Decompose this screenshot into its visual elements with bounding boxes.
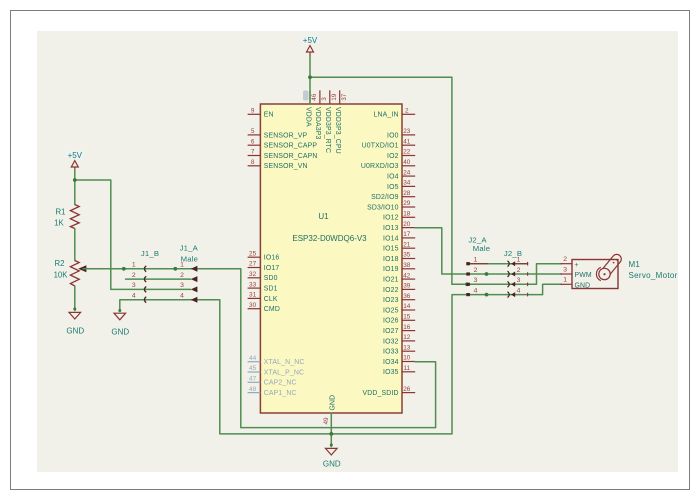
junction at J2_A pin 4 tip xyxy=(485,293,489,297)
svg-text:1: 1 xyxy=(180,262,184,269)
svg-text:IO33: IO33 xyxy=(383,349,399,356)
svg-text:1: 1 xyxy=(474,257,478,264)
wire IO13 to J2 row 2 (PWM) xyxy=(415,228,562,274)
wire R2 to ground xyxy=(74,286,76,311)
svg-text:11: 11 xyxy=(403,365,410,372)
svg-text:30: 30 xyxy=(249,302,257,309)
wire R2 wiper to J1 row 1 to IO34 (bottom bus) xyxy=(83,269,436,428)
connector J2_B pin 3 xyxy=(508,277,528,287)
svg-text:33: 33 xyxy=(249,281,257,288)
svg-text:Servo_Motor: Servo_Motor xyxy=(629,271,678,280)
junction at top +5V xyxy=(308,75,312,79)
svg-text:3: 3 xyxy=(180,282,184,289)
IC U1 ESP32-D0WDQ6-V3 microcontroller xyxy=(260,104,402,413)
wire U1 GND pin to ground xyxy=(330,413,332,447)
svg-text:29: 29 xyxy=(403,200,411,207)
svg-text:ESP32-D0WDQ6-V3: ESP32-D0WDQ6-V3 xyxy=(292,234,367,243)
U1 top power pins VDDA VDDA3P3 VDD3P3_RTC VDD3P3_CPU xyxy=(303,90,348,153)
connector J2_B pin 2 xyxy=(508,267,528,277)
svg-text:CLK: CLK xyxy=(264,296,278,303)
motor M1 Servo_Motor body and pins xyxy=(561,254,622,289)
svg-text:41: 41 xyxy=(403,138,411,145)
svg-text:45: 45 xyxy=(249,365,257,372)
svg-text:18: 18 xyxy=(403,211,411,218)
svg-text:SD1: SD1 xyxy=(264,286,278,293)
svg-text:24: 24 xyxy=(403,169,411,176)
svg-text:4: 4 xyxy=(132,293,136,300)
svg-text:IO12: IO12 xyxy=(383,215,399,222)
svg-text:37: 37 xyxy=(341,93,348,101)
svg-text:16: 16 xyxy=(403,324,411,331)
connector J2_A pin 1 xyxy=(466,257,488,266)
ground symbol (bottom center) xyxy=(323,448,341,468)
svg-text:10K: 10K xyxy=(54,271,69,280)
svg-text:SENSOR_CAPN: SENSOR_CAPN xyxy=(264,153,318,160)
svg-text:CAP1_NC: CAP1_NC xyxy=(264,390,297,397)
svg-text:VDD3P3_CPU: VDD3P3_CPU xyxy=(334,107,341,154)
svg-text:GND: GND xyxy=(111,328,129,337)
svg-text:IO19: IO19 xyxy=(383,266,399,273)
svg-text:2: 2 xyxy=(517,267,521,274)
svg-text:49: 49 xyxy=(323,417,330,425)
svg-text:22: 22 xyxy=(403,149,411,156)
connector J2_B label xyxy=(504,249,522,258)
ground symbol (under J1_B) xyxy=(111,313,129,336)
svg-text:2: 2 xyxy=(405,108,409,115)
svg-text:CAP2_NC: CAP2_NC xyxy=(264,380,297,387)
svg-text:1: 1 xyxy=(132,262,136,269)
svg-text:19: 19 xyxy=(331,93,338,101)
junction at J2_A pin 3 xyxy=(465,282,469,286)
svg-text:IO15: IO15 xyxy=(383,246,399,253)
svg-text:28: 28 xyxy=(403,190,411,197)
svg-text:VDD3P3_RTC: VDD3P3_RTC xyxy=(324,107,331,153)
connector J2_A pin 2 xyxy=(466,267,477,276)
connector J1_A pin 2 xyxy=(180,272,197,282)
svg-text:31: 31 xyxy=(249,292,257,299)
svg-text:7: 7 xyxy=(251,149,255,156)
svg-text:U0RXD/IO3: U0RXD/IO3 xyxy=(361,163,399,170)
svg-text:IO5: IO5 xyxy=(387,184,399,191)
svg-text:IO17: IO17 xyxy=(264,265,280,272)
svg-text:39: 39 xyxy=(403,283,411,290)
svg-text:SENSOR_VN: SENSOR_VN xyxy=(264,163,308,170)
svg-text:IO4: IO4 xyxy=(387,174,399,181)
svg-text:9: 9 xyxy=(251,108,255,115)
svg-text:IO34: IO34 xyxy=(383,359,399,366)
connector J1_B pin 3 xyxy=(132,282,146,292)
svg-text:4: 4 xyxy=(474,287,478,294)
connector J1_B pin 1 xyxy=(132,262,146,272)
wire R1 to R2 xyxy=(74,229,76,261)
svg-text:20: 20 xyxy=(403,221,411,228)
svg-text:32: 32 xyxy=(249,271,257,278)
svg-text:SD3/IO10: SD3/IO10 xyxy=(367,204,398,211)
svg-text:2: 2 xyxy=(132,272,136,279)
svg-text:VDDA3P3: VDDA3P3 xyxy=(314,107,321,139)
connector J1_B label xyxy=(141,249,159,258)
svg-text:J1_B: J1_B xyxy=(141,249,159,258)
svg-text:IO25: IO25 xyxy=(383,307,399,314)
svg-text:42: 42 xyxy=(403,272,411,279)
connector J2_A labels xyxy=(468,236,490,253)
connector J1_A pin 1 xyxy=(180,262,197,272)
svg-text:40: 40 xyxy=(403,159,411,166)
junction at +5V branch xyxy=(73,178,77,182)
svg-text:3: 3 xyxy=(563,266,567,273)
connector J2_B pin 4 xyxy=(508,287,528,297)
connector J1_B pin 2 xyxy=(132,272,146,282)
motor M1 labels xyxy=(629,260,678,280)
svg-text:GND: GND xyxy=(323,460,341,469)
connector J1_A pin 3 xyxy=(180,282,197,292)
svg-text:2: 2 xyxy=(474,267,478,274)
svg-text:8: 8 xyxy=(251,159,255,166)
svg-text:SENSOR_VP: SENSOR_VP xyxy=(264,132,308,139)
svg-text:48: 48 xyxy=(249,386,257,393)
svg-text:XTAL_N_NC: XTAL_N_NC xyxy=(264,359,305,366)
svg-text:12: 12 xyxy=(403,334,411,341)
svg-text:GND: GND xyxy=(575,283,591,290)
svg-text:LNA_IN: LNA_IN xyxy=(374,112,399,119)
svg-text:IO26: IO26 xyxy=(383,318,399,325)
svg-text:J1_A: J1_A xyxy=(180,244,199,253)
svg-text:XTAL_P_NC: XTAL_P_NC xyxy=(264,369,304,376)
resistor R1 xyxy=(54,205,79,229)
U1 left pins with numbers xyxy=(248,108,318,398)
svg-text:4: 4 xyxy=(517,287,521,294)
connector J1_A labels xyxy=(180,244,199,264)
svg-text:IO13: IO13 xyxy=(383,225,399,232)
svg-text:1: 1 xyxy=(517,257,521,264)
junction at J1_A pin 1 xyxy=(173,267,177,271)
svg-text:26: 26 xyxy=(403,386,411,393)
svg-text:IO27: IO27 xyxy=(383,328,399,335)
svg-text:44: 44 xyxy=(249,355,257,362)
svg-text:38: 38 xyxy=(403,262,411,269)
connector J1_A pin 4 xyxy=(180,293,197,303)
svg-text:SD0: SD0 xyxy=(264,275,278,282)
svg-text:1K: 1K xyxy=(54,219,64,228)
svg-text:R2: R2 xyxy=(55,259,65,268)
svg-text:IO0: IO0 xyxy=(387,132,399,139)
svg-text:IO2: IO2 xyxy=(387,153,399,160)
wire +5V stem (left) xyxy=(74,170,76,205)
svg-text:15: 15 xyxy=(403,314,411,321)
svg-text:23: 23 xyxy=(403,128,411,135)
svg-text:1: 1 xyxy=(563,277,567,284)
connector J2_A pin 4 xyxy=(466,287,477,296)
svg-text:U0TXD/IO1: U0TXD/IO1 xyxy=(362,143,399,150)
junction on wiper wire xyxy=(122,267,126,271)
wire J1 row 2 xyxy=(126,278,191,280)
svg-text:CMD: CMD xyxy=(264,306,280,313)
junction at J2_A pin 2 tip xyxy=(485,272,489,276)
svg-text:5: 5 xyxy=(251,128,255,135)
svg-text:IO23: IO23 xyxy=(383,297,399,304)
svg-text:M1: M1 xyxy=(629,260,641,269)
svg-text:13: 13 xyxy=(403,344,411,351)
svg-text:IO21: IO21 xyxy=(383,277,399,284)
connector J1_B pin 4 xyxy=(132,293,146,303)
svg-text:46: 46 xyxy=(311,93,318,101)
svg-text:2: 2 xyxy=(180,272,184,279)
svg-text:10: 10 xyxy=(403,355,411,362)
svg-text:3: 3 xyxy=(517,277,521,284)
wire J1 row 4 to ground and bottom GND bus xyxy=(120,284,562,434)
svg-text:EN: EN xyxy=(264,112,274,119)
svg-text:47: 47 xyxy=(249,376,257,383)
svg-text:34: 34 xyxy=(403,180,411,187)
U1 bottom pin 49 GND xyxy=(323,395,337,425)
svg-text:SENSOR_CAPP: SENSOR_CAPP xyxy=(264,143,318,150)
connector J2_B pin 1 xyxy=(508,257,528,267)
junction GND bus at U1 GND xyxy=(329,432,333,436)
svg-text:IO35: IO35 xyxy=(383,369,399,376)
svg-text:2: 2 xyxy=(563,256,567,263)
svg-text:IO16: IO16 xyxy=(264,255,280,262)
potentiometer R2 xyxy=(54,259,87,286)
svg-text:27: 27 xyxy=(249,261,257,268)
wire +5V to U1 VDDA pins xyxy=(309,55,311,104)
svg-text:IO32: IO32 xyxy=(383,338,399,345)
svg-text:21: 21 xyxy=(403,241,411,248)
svg-text:VDDA: VDDA xyxy=(304,107,311,127)
svg-text:35: 35 xyxy=(403,252,411,259)
svg-text:+5V: +5V xyxy=(68,151,83,160)
connector J2_A pin 3 xyxy=(466,277,477,286)
wire +5V branch right to J2_A pin 3 and servo + xyxy=(310,77,562,284)
svg-text:R1: R1 xyxy=(56,208,66,217)
power symbol +5V (left) xyxy=(66,151,85,172)
svg-text:VDD_SDID: VDD_SDID xyxy=(363,390,399,397)
svg-text:+: + xyxy=(575,262,579,269)
svg-text:3: 3 xyxy=(474,277,478,284)
svg-text:14: 14 xyxy=(403,303,411,310)
ground symbol (left, under R2) xyxy=(66,312,84,335)
svg-text:3: 3 xyxy=(132,282,136,289)
svg-text:U1: U1 xyxy=(318,212,329,221)
svg-text:IO18: IO18 xyxy=(383,256,399,263)
svg-text:4: 4 xyxy=(180,293,184,300)
svg-text:3: 3 xyxy=(321,97,328,101)
svg-text:PWM: PWM xyxy=(575,272,592,279)
svg-text:36: 36 xyxy=(403,293,411,300)
svg-text:25: 25 xyxy=(249,250,257,257)
U1 right pins with numbers xyxy=(361,108,415,398)
svg-text:GND: GND xyxy=(66,327,84,336)
wire +5V branch to J1_B pin 3 xyxy=(75,180,191,289)
wire J2_A pin 1 to J2_B pin 1 xyxy=(467,263,528,265)
svg-text:IO22: IO22 xyxy=(383,287,399,294)
svg-text:Male: Male xyxy=(473,244,490,253)
svg-text:6: 6 xyxy=(251,138,255,145)
svg-text:GND: GND xyxy=(330,395,337,411)
power symbol +5V (top) xyxy=(301,36,320,57)
svg-text:+5V: +5V xyxy=(303,36,318,45)
svg-text:17: 17 xyxy=(403,231,411,238)
svg-text:IO14: IO14 xyxy=(383,235,399,242)
svg-text:SD2/IO9: SD2/IO9 xyxy=(371,194,398,201)
